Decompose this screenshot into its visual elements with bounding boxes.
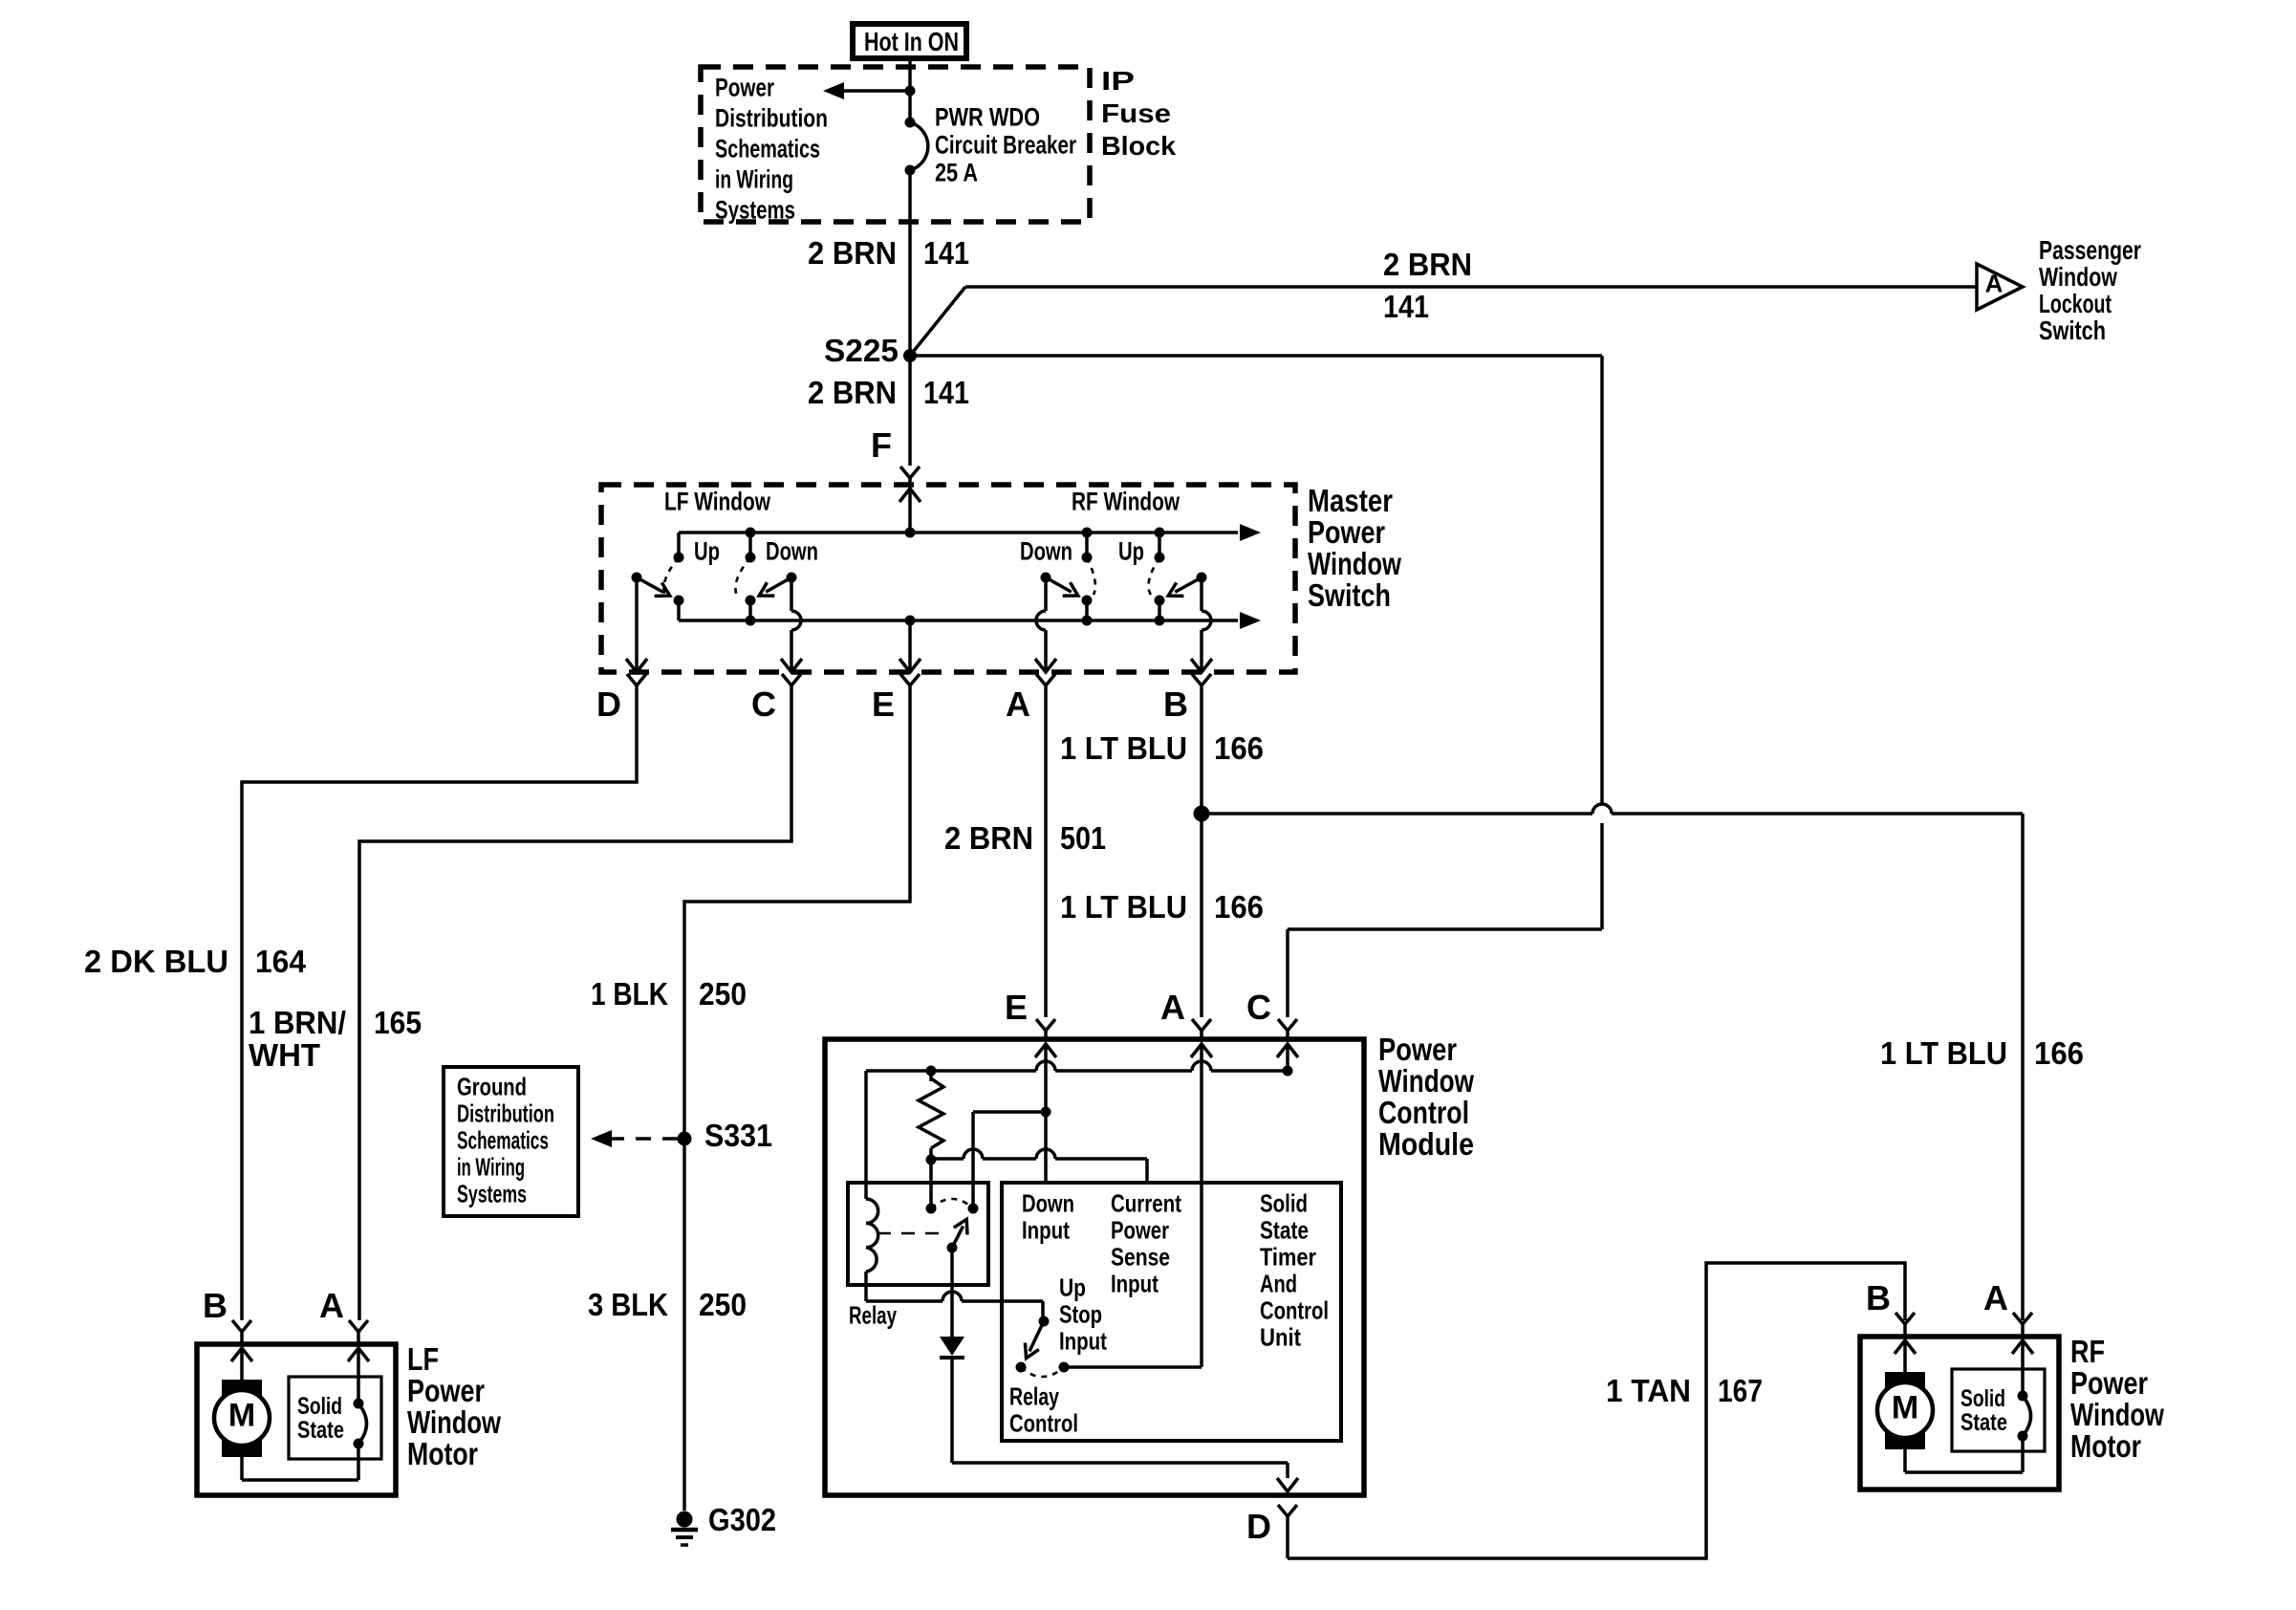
svg-text:RF Window: RF Window bbox=[1072, 487, 1180, 515]
svg-text:C: C bbox=[751, 685, 776, 724]
svg-text:Window: Window bbox=[2070, 1397, 2164, 1432]
svg-text:25 A: 25 A bbox=[935, 158, 978, 186]
svg-text:Down: Down bbox=[1020, 536, 1072, 565]
svg-text:Motor: Motor bbox=[407, 1436, 478, 1471]
svg-text:141: 141 bbox=[923, 375, 969, 410]
svg-text:Schematics: Schematics bbox=[715, 134, 820, 163]
svg-text:Lockout: Lockout bbox=[2039, 289, 2112, 318]
svg-text:Control: Control bbox=[1260, 1296, 1329, 1325]
svg-text:Stop: Stop bbox=[1059, 1300, 1102, 1329]
svg-text:250: 250 bbox=[699, 1287, 747, 1322]
svg-text:State: State bbox=[1260, 1216, 1309, 1245]
svg-text:2 BRN: 2 BRN bbox=[808, 375, 897, 410]
svg-text:Unit: Unit bbox=[1260, 1323, 1301, 1352]
svg-text:M: M bbox=[228, 1398, 255, 1434]
svg-text:Input: Input bbox=[1022, 1216, 1070, 1245]
svg-text:2 BRN: 2 BRN bbox=[1383, 247, 1472, 282]
svg-text:Passenger: Passenger bbox=[2039, 235, 2141, 265]
svg-text:Schematics: Schematics bbox=[457, 1126, 549, 1155]
svg-text:141: 141 bbox=[923, 235, 969, 271]
svg-text:D: D bbox=[1246, 1507, 1271, 1546]
svg-text:A: A bbox=[1006, 685, 1030, 724]
svg-text:2 BRN: 2 BRN bbox=[808, 235, 897, 271]
svg-text:B: B bbox=[1866, 1278, 1891, 1317]
svg-text:IP: IP bbox=[1101, 66, 1135, 96]
svg-text:Control: Control bbox=[1378, 1095, 1469, 1130]
svg-text:Block: Block bbox=[1101, 131, 1176, 161]
svg-text:Relay: Relay bbox=[849, 1301, 897, 1330]
svg-text:LF Window: LF Window bbox=[664, 487, 771, 515]
svg-text:A: A bbox=[319, 1286, 344, 1325]
svg-text:in Wiring: in Wiring bbox=[457, 1153, 525, 1182]
svg-text:Power: Power bbox=[2070, 1365, 2148, 1401]
svg-text:S225: S225 bbox=[824, 333, 899, 368]
svg-text:164: 164 bbox=[255, 944, 307, 979]
svg-text:Circuit Breaker: Circuit Breaker bbox=[935, 130, 1076, 159]
svg-text:RF: RF bbox=[2070, 1334, 2105, 1369]
svg-text:Up: Up bbox=[1059, 1273, 1086, 1302]
svg-text:A: A bbox=[1985, 270, 2004, 298]
svg-text:Hot In ON: Hot In ON bbox=[864, 27, 959, 56]
svg-text:Solid: Solid bbox=[297, 1393, 342, 1420]
svg-text:Timer: Timer bbox=[1260, 1243, 1316, 1272]
svg-text:Power: Power bbox=[1111, 1216, 1169, 1245]
svg-text:167: 167 bbox=[1718, 1373, 1763, 1408]
svg-text:Solid: Solid bbox=[1260, 1189, 1308, 1218]
svg-text:Fuse: Fuse bbox=[1101, 98, 1171, 128]
svg-text:Master: Master bbox=[1308, 483, 1393, 518]
svg-text:Module: Module bbox=[1378, 1126, 1474, 1162]
svg-text:Switch: Switch bbox=[1308, 577, 1391, 613]
svg-text:165: 165 bbox=[374, 1005, 422, 1040]
svg-text:Input: Input bbox=[1111, 1270, 1159, 1298]
svg-text:D: D bbox=[596, 685, 621, 724]
svg-text:State: State bbox=[297, 1417, 344, 1444]
svg-text:Power: Power bbox=[407, 1373, 485, 1408]
svg-text:Up: Up bbox=[1118, 536, 1144, 565]
svg-text:141: 141 bbox=[1383, 289, 1429, 324]
svg-text:Control: Control bbox=[1009, 1409, 1078, 1438]
svg-text:1 LT BLU: 1 LT BLU bbox=[1060, 889, 1187, 925]
svg-text:2 BRN: 2 BRN bbox=[944, 820, 1033, 856]
svg-text:PWR WDO: PWR WDO bbox=[935, 102, 1040, 131]
svg-text:1 LT BLU: 1 LT BLU bbox=[1060, 730, 1187, 766]
svg-text:Current: Current bbox=[1111, 1189, 1181, 1218]
svg-text:1 BRN/: 1 BRN/ bbox=[249, 1005, 346, 1040]
svg-text:Solid: Solid bbox=[1960, 1385, 2005, 1412]
svg-text:Switch: Switch bbox=[2039, 315, 2106, 345]
svg-text:1 TAN: 1 TAN bbox=[1606, 1373, 1691, 1408]
svg-text:E: E bbox=[1005, 988, 1028, 1027]
svg-text:1 LT BLU: 1 LT BLU bbox=[1880, 1035, 2007, 1071]
svg-text:Ground: Ground bbox=[457, 1073, 527, 1101]
svg-text:Systems: Systems bbox=[715, 195, 795, 224]
svg-text:in Wiring: in Wiring bbox=[715, 164, 793, 193]
svg-text:G302: G302 bbox=[708, 1502, 776, 1537]
svg-text:Window: Window bbox=[407, 1404, 501, 1440]
svg-text:Down: Down bbox=[1022, 1189, 1074, 1218]
svg-text:A: A bbox=[1160, 988, 1185, 1027]
svg-text:Window: Window bbox=[2039, 262, 2117, 292]
svg-text:Input: Input bbox=[1059, 1327, 1107, 1356]
svg-text:C: C bbox=[1246, 988, 1271, 1027]
svg-text:Power: Power bbox=[1378, 1032, 1457, 1067]
svg-text:Window: Window bbox=[1308, 546, 1401, 581]
svg-text:B: B bbox=[203, 1286, 227, 1325]
svg-text:Systems: Systems bbox=[457, 1180, 527, 1208]
svg-text:Down: Down bbox=[766, 536, 818, 565]
svg-text:Motor: Motor bbox=[2070, 1428, 2141, 1464]
svg-text:501: 501 bbox=[1060, 820, 1106, 856]
svg-text:S331: S331 bbox=[704, 1118, 772, 1153]
svg-text:Up: Up bbox=[694, 536, 720, 565]
svg-text:1 BLK: 1 BLK bbox=[591, 976, 668, 1012]
svg-text:State: State bbox=[1960, 1409, 2007, 1436]
svg-text:F: F bbox=[871, 425, 892, 465]
svg-text:WHT: WHT bbox=[249, 1037, 320, 1073]
svg-text:Relay: Relay bbox=[1009, 1382, 1059, 1411]
svg-text:3 BLK: 3 BLK bbox=[588, 1287, 668, 1322]
svg-text:Power: Power bbox=[715, 73, 774, 101]
svg-text:E: E bbox=[872, 685, 895, 724]
svg-text:166: 166 bbox=[1214, 730, 1264, 766]
svg-text:166: 166 bbox=[1214, 889, 1264, 925]
svg-text:And: And bbox=[1260, 1270, 1297, 1298]
svg-text:2 DK BLU: 2 DK BLU bbox=[84, 944, 228, 979]
svg-text:166: 166 bbox=[2034, 1035, 2084, 1071]
svg-text:B: B bbox=[1163, 685, 1188, 724]
svg-text:Sense: Sense bbox=[1111, 1243, 1170, 1272]
svg-text:A: A bbox=[1983, 1278, 2008, 1317]
svg-text:M: M bbox=[1892, 1390, 1918, 1426]
svg-text:Power: Power bbox=[1308, 514, 1385, 550]
svg-text:250: 250 bbox=[699, 976, 747, 1012]
svg-text:LF: LF bbox=[407, 1341, 439, 1377]
svg-text:Distribution: Distribution bbox=[715, 103, 828, 132]
svg-text:Distribution: Distribution bbox=[457, 1099, 554, 1128]
svg-text:Window: Window bbox=[1378, 1063, 1474, 1099]
